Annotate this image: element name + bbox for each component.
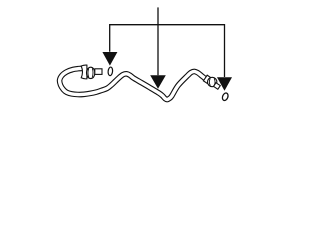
left fitting tip tube [95,69,102,75]
left fitting nut ball [87,67,95,78]
hose outer outline [60,68,206,99]
left fitting nut facet lines [88,68,93,77]
left fitting crimp collar [81,65,87,79]
right fitting ball [208,77,217,86]
left olive (sealing ring) [108,67,113,76]
right fitting ball meridian [209,78,215,85]
right fitting crimp collar [203,75,211,83]
wire: left-top-right leader polyline [110,25,225,77]
wire: center leader vertical line [157,7,159,75]
arrowhead center [150,75,166,89]
hose inner white core [60,68,206,99]
right fitting tip [214,83,221,90]
arrowhead left [102,52,117,66]
right olive (sealing ring) [221,92,229,101]
arrowhead right [217,77,232,91]
